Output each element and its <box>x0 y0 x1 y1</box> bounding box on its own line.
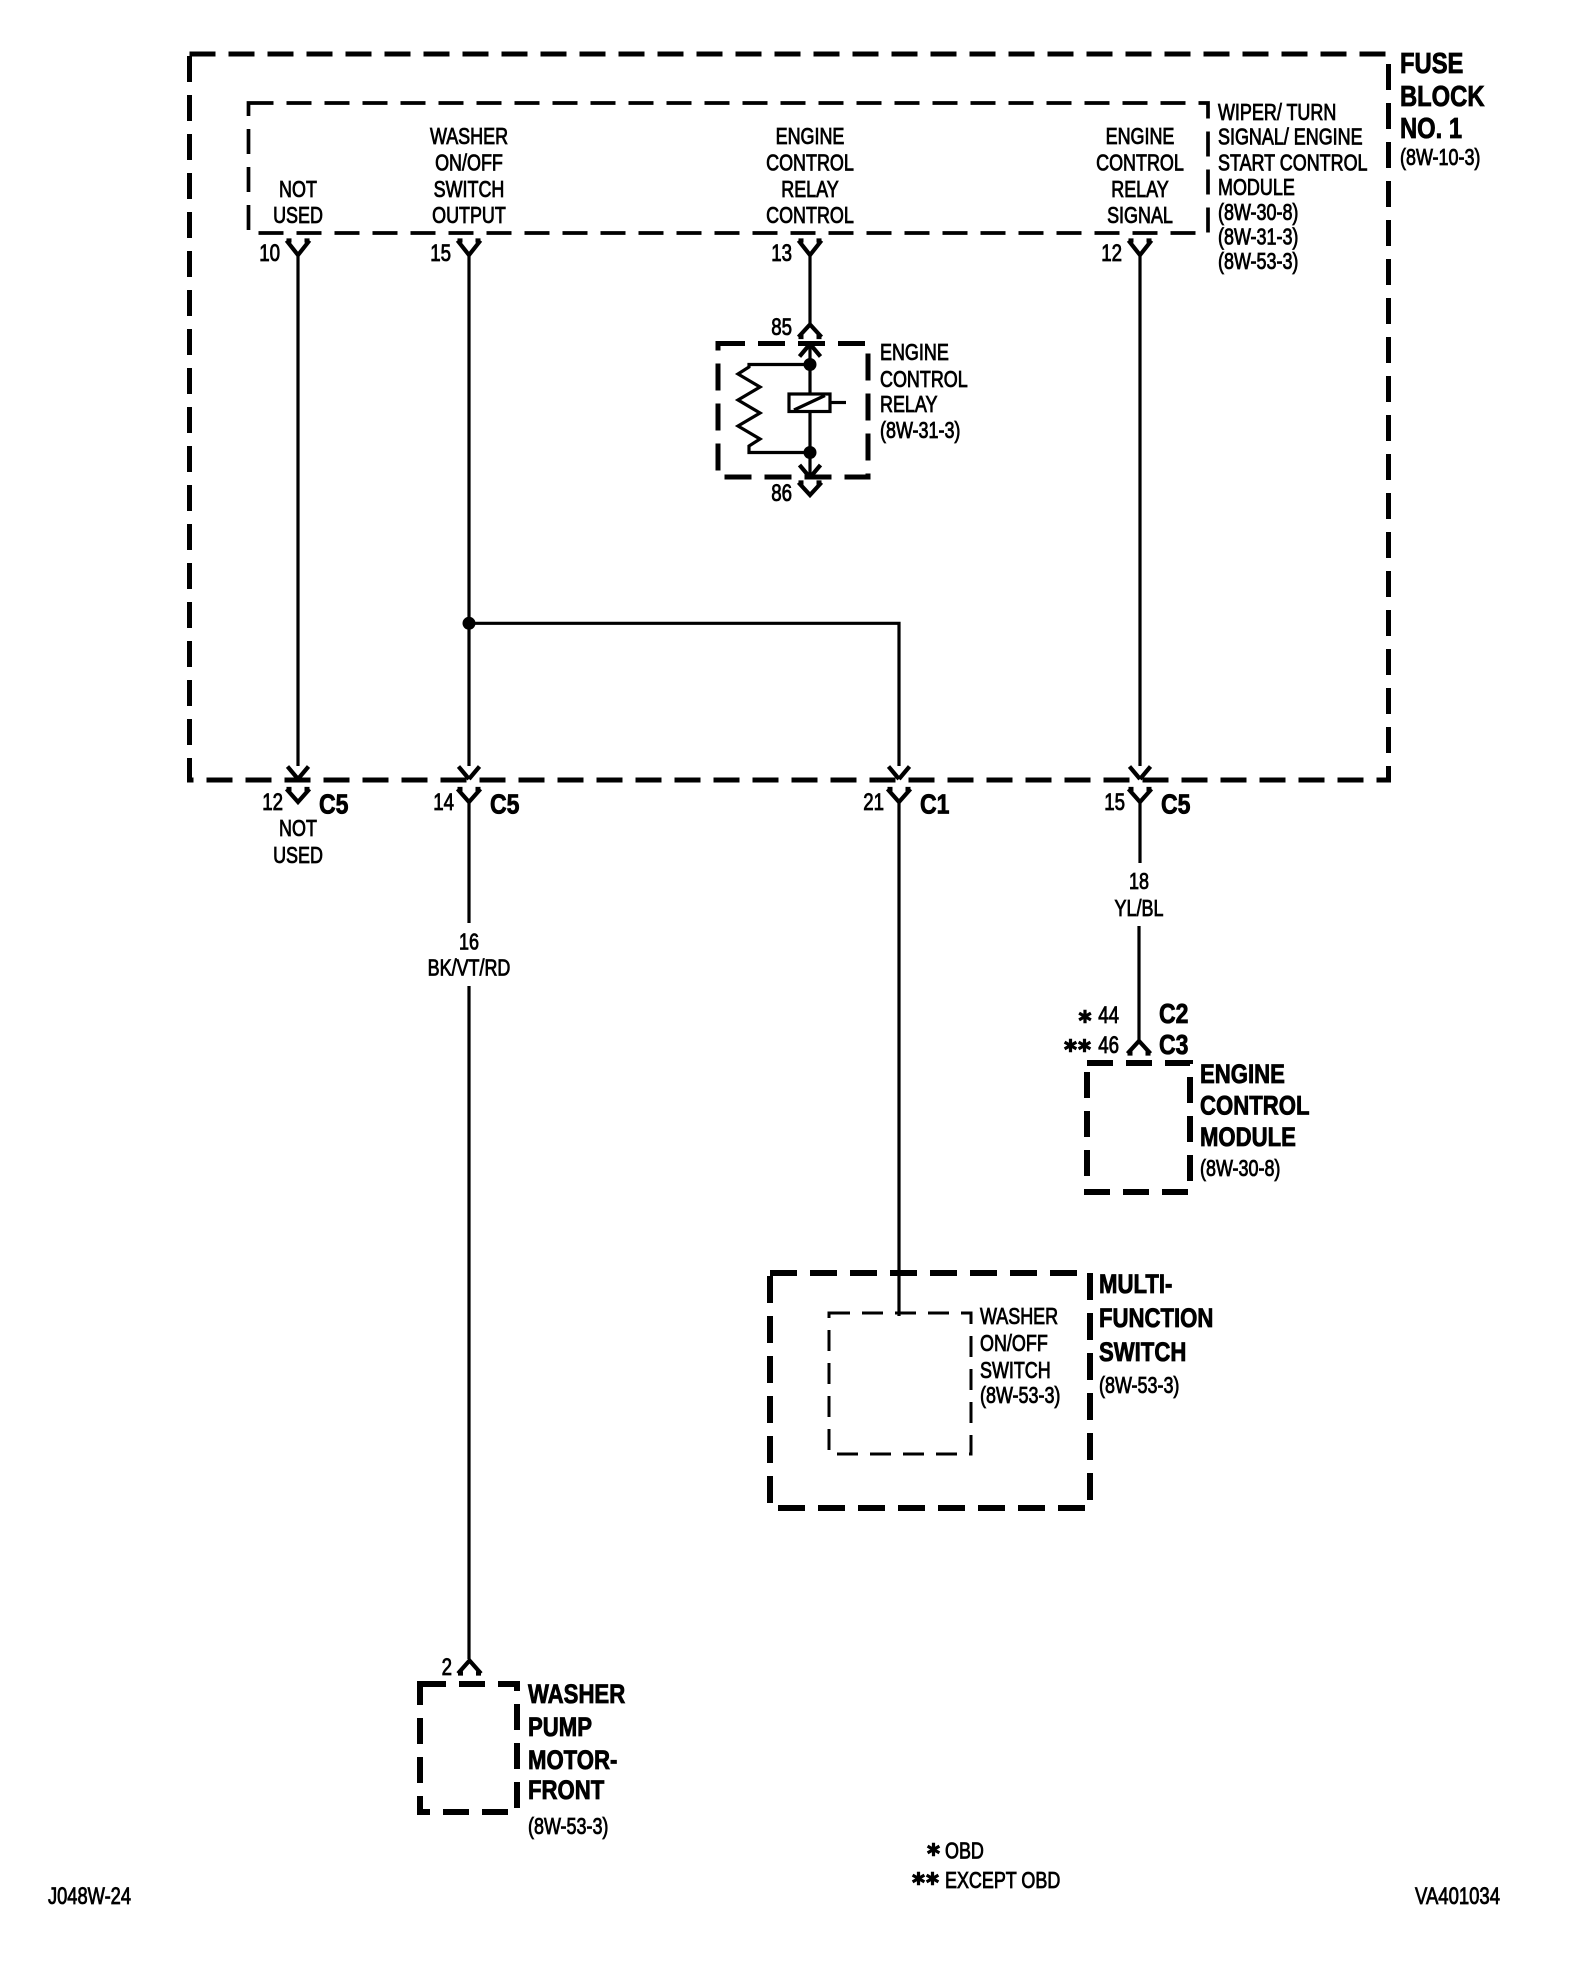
connector C5 at pin 12 (female half) <box>287 789 310 802</box>
svg-text:12: 12 <box>1101 240 1122 267</box>
arrow into fuse block bottom at 14 C5 <box>459 767 480 780</box>
arrow into fuse block bottom at 12 C5 <box>288 767 309 780</box>
svg-text:CONTROL: CONTROL <box>1200 1091 1310 1121</box>
multi-function switch box (dashed) <box>770 1273 1090 1508</box>
wire: pin 15 down to junction <box>467 255 470 766</box>
connector C1 at pin 21 (female half) <box>888 789 911 802</box>
washer on/off switch box (dashed) <box>829 1313 971 1454</box>
wire: pin 13 to engine control relay pin 85 <box>808 255 811 323</box>
arrow into fuse block bottom at 15 C5 <box>1130 767 1151 780</box>
svg-text:46: 46 <box>1098 1032 1119 1059</box>
connector names C2 / C3 <box>1159 998 1188 1060</box>
wire: 14 C5 down (upper segment) <box>467 802 470 923</box>
svg-text:PUMP: PUMP <box>528 1712 592 1742</box>
engine control module box (dashed) <box>1087 1063 1190 1192</box>
svg-text:MOTOR-: MOTOR- <box>528 1745 617 1775</box>
svg-text:J048W-24: J048W-24 <box>48 1883 131 1910</box>
fuse block no. 1 enclosure (dashed) <box>190 54 1389 780</box>
pin 15 connector (female half) <box>458 241 481 256</box>
svg-text:86: 86 <box>771 480 792 507</box>
svg-text:RELAY: RELAY <box>1111 176 1169 202</box>
svg-text:C5: C5 <box>490 789 519 820</box>
resistor (relay suppression) <box>738 365 810 453</box>
svg-text:MODULE: MODULE <box>1218 174 1295 200</box>
svg-text:44: 44 <box>1098 1002 1119 1029</box>
svg-text:(8W-30-8): (8W-30-8) <box>1200 1155 1280 1181</box>
svg-text:NOT: NOT <box>279 815 317 841</box>
wire: 14 C5 down to washer pump (lower segment) <box>467 986 470 1659</box>
pin 13 connector (female half) <box>799 241 822 256</box>
junction node (washer switch output branch) <box>463 617 476 630</box>
OBD asterisk (pin 44) <box>1079 1010 1091 1024</box>
svg-text:10: 10 <box>259 240 280 267</box>
svg-text:WASHER: WASHER <box>528 1679 625 1709</box>
svg-text:ENGINE: ENGINE <box>880 339 949 365</box>
svg-text:USED: USED <box>273 202 323 228</box>
svg-text:C2: C2 <box>1159 998 1188 1029</box>
arrow into fuse block bottom at 21 C1 <box>889 767 910 780</box>
svg-text:CONTROL: CONTROL <box>766 150 854 176</box>
label: ENGINE CONTROL MODULE (8W-30-8) <box>1200 1059 1310 1181</box>
connector C5 at pin 14 (female half) <box>458 789 481 802</box>
wire label: 18 YL/BL <box>1115 868 1164 921</box>
svg-text:CONTROL: CONTROL <box>766 202 854 228</box>
label: WASHER ON/OFF SWITCH OUTPUT (pin 15 column) <box>430 123 508 228</box>
wiper/turn signal/engine start control module connector row (dashed) <box>249 103 1209 233</box>
junction node: relay coil bottom <box>804 446 817 459</box>
svg-text:C5: C5 <box>1161 789 1190 820</box>
svg-text:VA401034: VA401034 <box>1415 1883 1500 1910</box>
relay pin 85 connector (male half) <box>799 325 822 338</box>
pin 10 connector (female half) <box>287 241 310 256</box>
svg-text:(8W-31-3): (8W-31-3) <box>880 417 960 443</box>
svg-text:(8W-53-3): (8W-53-3) <box>980 1382 1060 1408</box>
svg-text:SIGNAL/ ENGINE: SIGNAL/ ENGINE <box>1218 124 1363 150</box>
arrow at relay bottom edge (pin 86) <box>800 465 821 478</box>
svg-text:ON/OFF: ON/OFF <box>980 1330 1048 1356</box>
svg-text:(8W-53-3): (8W-53-3) <box>1099 1372 1179 1398</box>
svg-text:NO. 1: NO. 1 <box>1400 113 1462 145</box>
svg-text:C3: C3 <box>1159 1029 1188 1060</box>
label: WASHER ON/OFF SWITCH (8W-53-3) <box>980 1303 1060 1408</box>
junction node: relay coil top <box>804 358 817 371</box>
svg-text:(8W-53-3): (8W-53-3) <box>1218 248 1298 274</box>
svg-text:15: 15 <box>430 240 451 267</box>
svg-text:CONTROL: CONTROL <box>880 366 968 392</box>
label: WIPER/TURN SIGNAL/ENGINE START CONTROL MODULE <box>1218 99 1368 274</box>
svg-text:EXCEPT OBD: EXCEPT OBD <box>945 1867 1060 1893</box>
svg-text:(8W-10-3): (8W-10-3) <box>1400 144 1480 170</box>
legend asterisks: EXCEPT OBD <box>913 1872 939 1886</box>
wire: 21 C1 down to washer on/off switch <box>897 802 900 1316</box>
svg-text:MODULE: MODULE <box>1200 1122 1296 1152</box>
svg-text:WASHER: WASHER <box>430 123 508 149</box>
svg-text:MULTI-: MULTI- <box>1099 1269 1172 1299</box>
wire: 15 C5 down (upper segment) <box>1138 802 1141 863</box>
label: NOT USED (below 12 C5) <box>273 815 323 868</box>
wire: relay bottom node to pin 86 <box>808 453 811 478</box>
except-OBD asterisks (pin 46) <box>1065 1039 1091 1053</box>
svg-text:FUNCTION: FUNCTION <box>1099 1303 1213 1333</box>
arrow at relay top edge (pin 85) <box>800 344 821 357</box>
label: ENGINE CONTROL RELAY (8W-31-3) <box>880 339 968 443</box>
svg-text:SWITCH: SWITCH <box>434 176 505 202</box>
engine control module pin connector (male half) <box>1128 1041 1151 1054</box>
svg-text:USED: USED <box>273 842 323 868</box>
relay coil element <box>789 365 846 453</box>
wire: junction to 21 C1 (horizontal + vertical) <box>469 623 899 766</box>
svg-text:85: 85 <box>771 314 792 341</box>
washer pump motor-front box (dashed) <box>420 1684 517 1812</box>
label: ENGINE CONTROL RELAY CONTROL (pin 13 column) <box>766 123 854 228</box>
svg-text:WIPER/ TURN: WIPER/ TURN <box>1218 99 1336 125</box>
svg-text:12: 12 <box>262 789 283 816</box>
washer pump pin 2 connector (male half) <box>458 1661 481 1674</box>
svg-text:18: 18 <box>1129 868 1149 894</box>
svg-text:13: 13 <box>771 240 792 267</box>
svg-text:START CONTROL: START CONTROL <box>1218 150 1368 176</box>
svg-text:RELAY: RELAY <box>781 176 839 202</box>
svg-text:SIGNAL: SIGNAL <box>1107 202 1173 228</box>
svg-text:FUSE: FUSE <box>1400 48 1463 80</box>
label: FUSE BLOCK NO. 1 (8W-10-3) <box>1400 48 1485 170</box>
svg-text:NOT: NOT <box>279 176 317 202</box>
svg-text:15: 15 <box>1104 789 1125 816</box>
wire label: 16 BK/VT/RD <box>428 929 511 981</box>
svg-text:C1: C1 <box>920 789 949 820</box>
svg-text:ON/OFF: ON/OFF <box>435 150 503 176</box>
label: ENGINE CONTROL RELAY SIGNAL (pin 12 column) <box>1096 123 1184 228</box>
svg-text:CONTROL: CONTROL <box>1096 150 1184 176</box>
legend asterisk: OBD <box>928 1843 940 1857</box>
svg-text:RELAY: RELAY <box>880 391 938 417</box>
wire: pin 12 to 15 C5 <box>1138 255 1141 766</box>
svg-text:(8W-30-8): (8W-30-8) <box>1218 199 1298 225</box>
svg-text:OUTPUT: OUTPUT <box>432 202 506 228</box>
engine control relay box (dashed) <box>718 344 868 478</box>
pin 12 connector (female half) <box>1129 241 1152 256</box>
label: MULTI-FUNCTION SWITCH (8W-53-3) <box>1099 1269 1213 1398</box>
svg-text:ENGINE: ENGINE <box>1106 123 1175 149</box>
svg-text:14: 14 <box>433 789 454 816</box>
svg-text:YL/BL: YL/BL <box>1115 895 1164 921</box>
svg-text:SWITCH: SWITCH <box>1099 1337 1186 1367</box>
svg-text:FRONT: FRONT <box>528 1775 605 1805</box>
svg-text:C5: C5 <box>319 789 348 820</box>
label: NOT USED (pin 10 column) <box>273 176 323 228</box>
svg-text:SWITCH: SWITCH <box>980 1357 1051 1383</box>
svg-text:OBD: OBD <box>945 1838 984 1864</box>
svg-text:WASHER: WASHER <box>980 1303 1058 1329</box>
svg-text:16: 16 <box>459 929 479 955</box>
svg-text:BLOCK: BLOCK <box>1400 81 1485 113</box>
wire: 15 C5 down to engine control module (lower segment) <box>1137 926 1140 1040</box>
svg-text:21: 21 <box>863 789 884 816</box>
label: WASHER PUMP MOTOR-FRONT (8W-53-3) <box>528 1679 625 1839</box>
svg-text:(8W-53-3): (8W-53-3) <box>528 1813 608 1839</box>
wire: relay top node <box>808 344 811 364</box>
wire: pin 10 to 12 C5 <box>296 255 299 766</box>
svg-text:BK/VT/RD: BK/VT/RD <box>428 955 511 981</box>
relay pin 86 connector (female half) <box>799 483 822 496</box>
svg-text:ENGINE: ENGINE <box>776 123 845 149</box>
svg-text:(8W-31-3): (8W-31-3) <box>1218 224 1298 250</box>
svg-text:ENGINE: ENGINE <box>1200 1059 1285 1089</box>
connector C5 at pin 15 (female half) <box>1129 789 1152 802</box>
svg-text:2: 2 <box>442 1654 452 1681</box>
